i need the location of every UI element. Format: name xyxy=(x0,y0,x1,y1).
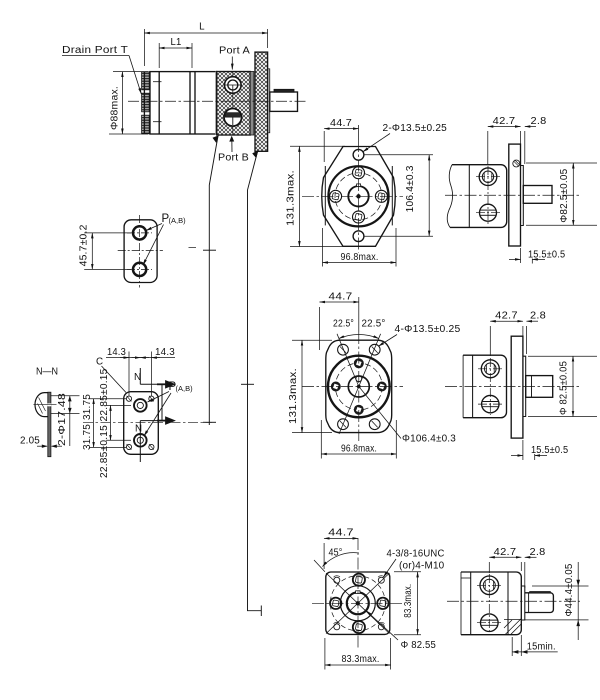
svg-text:15.5±0.5: 15.5±0.5 xyxy=(531,445,569,456)
svg-text:2-Φ17.48: 2-Φ17.48 xyxy=(57,393,68,446)
plate outline xyxy=(124,220,157,283)
port centerlines xyxy=(476,166,500,224)
pilot spigot edge row2 xyxy=(523,356,526,416)
svg-text:4-3/8-16UNC: 4-3/8-16UNC xyxy=(387,549,445,560)
dimension 31.75 31.75 xyxy=(89,399,126,448)
row1 side view xyxy=(445,116,597,264)
dimension 44.7 row1 xyxy=(324,125,358,162)
svg-text:Drain Port T: Drain Port T xyxy=(62,45,128,56)
svg-text:Port B: Port B xyxy=(218,153,249,164)
pilot spigot strip xyxy=(268,69,270,133)
svg-text:14.3: 14.3 xyxy=(155,347,175,358)
svg-text:22.85±0.15: 22.85±0.15 xyxy=(99,368,110,421)
svg-text:31.75: 31.75 xyxy=(82,394,93,420)
svg-text:131.3max.: 131.3max. xyxy=(288,368,299,424)
dimension dia44.4 xyxy=(524,562,588,640)
dimension 83.3max bottom xyxy=(325,638,391,670)
svg-text:83.3max.: 83.3max. xyxy=(403,584,414,618)
svg-text:106.4±0.3: 106.4±0.3 xyxy=(405,165,416,212)
svg-text:44.7: 44.7 xyxy=(328,528,354,539)
shaft row2 xyxy=(526,376,553,398)
body flats behind flange xyxy=(324,166,326,225)
port block hatched xyxy=(217,72,251,136)
svg-text:(A,B): (A,B) xyxy=(169,216,187,225)
dimension 44.7 row3 xyxy=(324,538,358,569)
bottom port plug row3 xyxy=(481,614,499,632)
view centerlines xyxy=(312,538,403,648)
top port plug xyxy=(481,360,499,378)
svg-text:14.3: 14.3 xyxy=(107,347,126,358)
dimension 83.3max right xyxy=(394,572,421,635)
dimension 22.5 arcs xyxy=(339,335,379,339)
svg-text:L1: L1 xyxy=(171,37,182,48)
dimension L1 xyxy=(159,43,192,68)
row2 four-bolt flange front view xyxy=(288,292,461,459)
dimension 131.3max row1 xyxy=(290,146,345,246)
svg-text:42.7: 42.7 xyxy=(494,547,517,558)
dimension 2.05 xyxy=(37,445,62,448)
section view arrows xyxy=(157,381,174,423)
motor rear face line xyxy=(143,72,145,134)
svg-text:42.7: 42.7 xyxy=(493,116,516,127)
row3 side view xyxy=(447,547,589,656)
section N-N view xyxy=(20,366,80,457)
shaft xyxy=(523,186,552,204)
pilot spigot dia44.4 row3 xyxy=(521,586,525,620)
top hole xyxy=(133,226,146,239)
dimension L xyxy=(144,29,267,66)
leader line from port B down to port plate views xyxy=(203,135,219,425)
port depth cut detail xyxy=(504,619,521,635)
svg-text:15.5±0.5: 15.5±0.5 xyxy=(528,250,566,261)
center hole xyxy=(348,376,369,397)
svg-text:131.3max.: 131.3max. xyxy=(286,170,297,226)
dome half-disc xyxy=(35,393,48,417)
dimension 14.3 14.3 xyxy=(106,352,175,397)
svg-text:83.3max.: 83.3max. xyxy=(342,654,380,665)
drain boss ribbed tabs xyxy=(142,72,150,134)
port centerlines xyxy=(478,358,502,415)
pilot circle xyxy=(328,166,388,226)
dimension 44.7 row2 xyxy=(320,297,359,350)
body block xyxy=(450,165,507,228)
pilot spigot edge xyxy=(521,166,524,226)
body block row3 xyxy=(461,572,521,635)
bottom bolt hole xyxy=(353,231,364,242)
flange plate row2 xyxy=(511,336,523,438)
dimension 15min xyxy=(512,635,558,656)
corner bolt holes xyxy=(334,576,385,630)
dark ports xyxy=(331,358,387,414)
svg-text:2.8: 2.8 xyxy=(531,116,547,127)
port centerlines row3 xyxy=(477,574,501,632)
svg-text:(A,B): (A,B) xyxy=(176,384,194,393)
leader line from mounting flange down to bottom view xyxy=(241,150,261,616)
section line N staggered xyxy=(140,368,162,462)
svg-text:N: N xyxy=(135,424,142,435)
shaft centerline xyxy=(128,100,307,102)
dimension 2.8 row2 xyxy=(527,321,539,354)
dimension dia82.5 row2 xyxy=(528,356,597,416)
flange bolt hole xyxy=(513,160,520,167)
dimension 22.85 22.85 xyxy=(106,405,131,440)
svg-text:(or)4-M10: (or)4-M10 xyxy=(399,561,445,572)
svg-text:44.7: 44.7 xyxy=(329,292,353,303)
top port ring xyxy=(134,399,147,412)
svg-text:44.7: 44.7 xyxy=(330,118,352,129)
shaft centerline xyxy=(445,194,580,196)
dimension 131.3max row2 xyxy=(292,340,332,432)
bottom hole xyxy=(133,263,146,276)
top port plug row3 xyxy=(480,576,499,595)
dimension 42.7 row3 xyxy=(489,557,521,573)
svg-text:96.8max.: 96.8max. xyxy=(341,444,377,455)
mounting flange hatched xyxy=(255,52,268,151)
pilot circle thick xyxy=(328,356,390,418)
view centerlines xyxy=(302,332,403,441)
svg-text:2.05: 2.05 xyxy=(20,436,40,447)
svg-text:N: N xyxy=(134,372,141,383)
svg-text:Φ44.4±0.05: Φ44.4±0.05 xyxy=(564,563,575,616)
square flange outline xyxy=(326,572,390,634)
shaft row3 xyxy=(525,593,554,613)
shaft centerline row3 xyxy=(447,600,580,602)
top port plug xyxy=(479,168,497,186)
bottom port plug xyxy=(482,395,499,412)
dimension 15.5 row2 xyxy=(511,440,547,460)
dimension 2.8 row3 xyxy=(525,557,537,588)
svg-text:22.5°: 22.5° xyxy=(362,319,386,330)
flange plate xyxy=(509,144,521,246)
dimension 96.8max row2 xyxy=(321,420,396,459)
center bore with keyway xyxy=(348,186,368,206)
dimension 42.7 row2 xyxy=(490,321,523,356)
plate mid centerline xyxy=(83,421,212,423)
svg-text:Φ88max.: Φ88max. xyxy=(110,86,121,130)
dimension 106.4 xyxy=(365,155,434,236)
svg-text:4-Φ13.5±0.25: 4-Φ13.5±0.25 xyxy=(395,324,461,335)
plate outline xyxy=(124,392,159,455)
dimension 2-dia17.48 xyxy=(50,396,79,446)
svg-text:96.8max.: 96.8max. xyxy=(341,252,379,263)
svg-text:N—N: N—N xyxy=(36,366,58,378)
lower port plate view xyxy=(82,347,212,478)
row1 two-bolt flange front view xyxy=(286,118,448,267)
port plate view with P(A,B) holes xyxy=(78,213,196,288)
dimension 42.7 row1 xyxy=(488,127,521,166)
dimension dia88max xyxy=(109,72,148,134)
section plate xyxy=(48,392,51,457)
joint strip xyxy=(215,72,217,136)
dimension 15.5 row1 xyxy=(509,248,545,264)
svg-text:22.85±0.15: 22.85±0.15 xyxy=(99,425,110,478)
body block xyxy=(463,355,506,418)
svg-text:Φ106.4±0.3: Φ106.4±0.3 xyxy=(402,434,456,445)
dimension 45deg arc xyxy=(323,553,359,567)
bolt circle dashed xyxy=(335,173,382,220)
flange outline xyxy=(322,147,396,247)
dimension dia82.5 row1 xyxy=(526,163,597,225)
svg-text:42.7: 42.7 xyxy=(495,311,518,322)
svg-text:31.75: 31.75 xyxy=(82,424,93,450)
svg-text:15min.: 15min. xyxy=(527,641,556,652)
output shaft xyxy=(270,89,298,111)
svg-text:C: C xyxy=(96,357,103,368)
dimension 2.8 row1 xyxy=(525,127,536,165)
svg-text:Φ82.5±0.05: Φ82.5±0.05 xyxy=(559,168,570,222)
bottom port plug xyxy=(480,204,497,221)
svg-text:2.8: 2.8 xyxy=(530,311,546,322)
port A plug xyxy=(224,77,243,94)
dimension 96.8max row1 xyxy=(323,228,397,267)
svg-text:22.5°: 22.5° xyxy=(333,319,354,330)
motor body outline xyxy=(150,72,217,134)
motor side view assembly xyxy=(62,22,307,164)
svg-text:2-Φ13.5±0.25: 2-Φ13.5±0.25 xyxy=(383,123,448,134)
diagonal construction lines xyxy=(337,334,401,439)
diagonal construction lines xyxy=(314,560,390,634)
port B plug xyxy=(224,109,242,127)
row2 side view xyxy=(445,311,597,460)
port bosses xyxy=(330,167,388,223)
top bolt hole xyxy=(353,149,364,160)
svg-text:45.7±0.2: 45.7±0.2 xyxy=(78,224,89,266)
svg-text:Port A: Port A xyxy=(219,46,250,57)
port bosses row3 xyxy=(330,574,389,634)
row3 square flange front view xyxy=(312,528,445,670)
svg-text:2.8: 2.8 xyxy=(530,547,546,558)
view centerlines xyxy=(302,140,403,253)
seal strip xyxy=(250,72,254,136)
svg-text:45°: 45° xyxy=(329,548,343,559)
bottom port ring xyxy=(134,434,147,447)
dimension 45.7 xyxy=(84,233,131,270)
bolt circle dashed xyxy=(335,363,382,410)
bolt ear holes xyxy=(338,344,381,429)
svg-text:Φ 82.55: Φ 82.55 xyxy=(401,640,437,651)
center bore row3 xyxy=(340,586,375,621)
centerlines xyxy=(118,215,196,288)
label Drain Port T xyxy=(62,56,141,95)
shaft centerline row2 xyxy=(445,386,580,388)
svg-text:Φ 82.5±0.05: Φ 82.5±0.05 xyxy=(559,361,570,415)
bolt circle dashed xyxy=(330,576,385,631)
bolt holes xyxy=(126,396,154,450)
dome centerline xyxy=(33,404,56,406)
svg-text:L: L xyxy=(199,22,205,33)
flange outline xyxy=(326,340,392,432)
